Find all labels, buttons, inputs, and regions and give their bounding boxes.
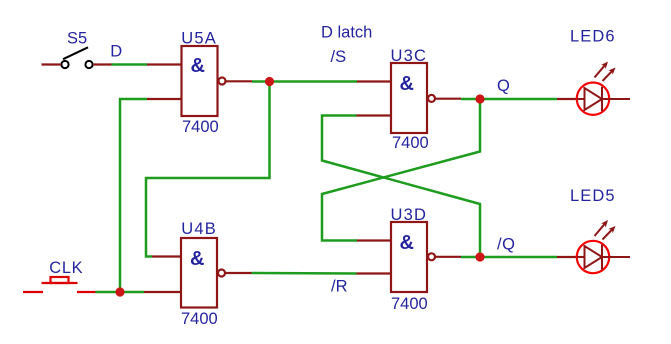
wire CLK vertical to U5A pin2 — [120, 99, 147, 292]
wire net D — [112, 63, 148, 66]
wire net /R — [252, 272, 357, 275]
svg-text:D latch: D latch — [321, 24, 372, 42]
wire /Q feedback to U3C pin2 — [322, 116, 480, 258]
svg-text:LED5: LED5 — [570, 187, 616, 205]
svg-text:7400: 7400 — [182, 118, 219, 136]
wire net /S horizontal — [252, 80, 357, 83]
pin stub U3C pin1 — [357, 80, 391, 82]
pin stub right of S5 — [93, 63, 112, 65]
svg-text:D: D — [110, 43, 122, 61]
nand gate U3D — [391, 222, 435, 292]
pin stub LED6 anode — [557, 98, 577, 100]
wire net Q to LED6 — [461, 98, 557, 101]
wire net /Q to LED5 — [461, 256, 557, 259]
svg-text:&: & — [191, 55, 205, 77]
pin stub U5A pin2 — [147, 98, 182, 100]
pushbutton CLK — [23, 277, 96, 292]
svg-text:U3D: U3D — [391, 206, 428, 224]
nand gate U5A — [182, 46, 226, 116]
svg-text:7400: 7400 — [392, 134, 429, 152]
svg-text:&: & — [190, 248, 204, 270]
junction node Q — [475, 94, 484, 103]
pin stub U3D pin2 — [357, 272, 392, 274]
pin stub U3C output — [435, 98, 461, 100]
pin stub U5A pin1 — [147, 63, 182, 65]
svg-text:&: & — [400, 232, 414, 254]
svg-text:S5: S5 — [67, 30, 87, 48]
wire net CLK — [96, 291, 145, 294]
svg-text:U5A: U5A — [181, 30, 217, 48]
svg-text:/Q: /Q — [497, 236, 516, 254]
nand gate U3C — [391, 63, 435, 133]
svg-text:/R: /R — [331, 278, 348, 296]
svg-text:LED6: LED6 — [570, 28, 616, 46]
LED D6 — [577, 62, 630, 115]
junction node /Q — [475, 252, 484, 261]
wire Q feedback to U3D pin1 — [322, 99, 480, 241]
svg-text:&: & — [400, 73, 414, 95]
svg-text:7400: 7400 — [181, 310, 218, 328]
pin stub U3D pin1 — [357, 239, 391, 241]
pin stub left of S5 — [42, 63, 62, 65]
switch S5 — [61, 47, 92, 68]
svg-text:CLK: CLK — [49, 259, 83, 277]
wire branch from /S node down to U4B pin1 — [146, 82, 270, 257]
junction node CLK — [115, 287, 124, 296]
svg-text:7400: 7400 — [391, 295, 428, 313]
pin stub U4B pin2 — [144, 291, 181, 293]
pin stub U5A output — [226, 80, 253, 82]
LED D5 — [577, 220, 630, 273]
svg-text:/S: /S — [331, 48, 347, 66]
pin stub LED5 anode — [557, 256, 577, 258]
nand gate U4B — [181, 238, 225, 308]
pin stub U4B output — [225, 272, 252, 274]
pin stub U4B pin1 — [152, 255, 181, 257]
svg-text:U3C: U3C — [391, 47, 428, 65]
pin stub U3D output — [435, 256, 461, 258]
junction U5A output node — [265, 77, 274, 86]
svg-text:U4B: U4B — [181, 220, 217, 238]
pin stub U3C pin2 — [357, 114, 392, 116]
svg-text:Q: Q — [497, 77, 510, 95]
